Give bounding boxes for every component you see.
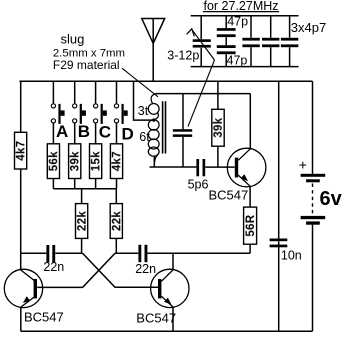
svg-text:A: A [56,122,68,141]
wire Q2 emitter [172,307,174,331]
tank capacitor plates [173,129,192,132]
svg-text:3t: 3t [138,104,149,118]
wire tank bottom [150,156,197,167]
resistor 4k7 switch D [110,144,123,179]
wire bottom ground rail [21,330,313,332]
wire cross coupling B (left node to Q2 base) [83,253,158,287]
svg-text:C: C [99,123,111,142]
battery cell bottom plates [301,216,326,219]
capacitor 22n left plates [46,245,49,262]
wire trimmer branch [200,16,202,67]
wire annotation bank top rail [191,15,299,17]
wire left column (4k7 / Q1 collector) [20,81,22,269]
transformer tap junction [152,118,155,121]
leader line bank to tank capacitor [188,60,215,127]
svg-text:+: + [299,156,307,172]
wire switch D leads [116,81,118,189]
transistor Q1 BC547 [4,269,42,307]
antenna [142,19,165,82]
wire resistor bus [53,188,116,190]
wire annotation bank bottom rail [191,66,299,68]
wire 39k leads [217,81,219,167]
wire Q1 emitter [20,307,22,331]
wire switch A leads [52,81,54,189]
svg-text:F29 material: F29 material [53,58,120,72]
switch C [94,104,107,124]
svg-text:BC547: BC547 [209,188,249,203]
svg-text:15k: 15k [90,151,102,171]
wire cross coupling A (right node to Q1 base) [37,253,115,287]
switch D [114,104,127,124]
wire battery positive drop [312,81,314,174]
wire top supply rail [19,80,312,82]
note for 27.27MHz [203,0,279,13]
wire 47p series branch [225,16,227,67]
svg-text:22k: 22k [76,211,88,231]
svg-text:22k: 22k [111,211,123,231]
svg-text:6t: 6t [139,130,150,144]
capacitor 22n right plates [138,245,141,262]
resistor 22k left [76,204,89,239]
capacitor 4p7 no1 plates [242,38,259,41]
svg-text:3x4p7: 3x4p7 [291,20,326,35]
transformer core [163,101,166,153]
capacitor 4p7 no3 plates [281,38,298,41]
capacitor 5p6 plates [196,159,199,176]
svg-text:BC547: BC547 [136,310,176,325]
svg-text:slug: slug [61,31,85,46]
wire 4p7 branch 1 [250,16,252,67]
wire tank cap branch [182,94,184,167]
capacitor 47p bottom plates [217,45,236,48]
wire battery negative drop [312,225,314,332]
svg-text:56k: 56k [48,151,60,171]
svg-text:39k: 39k [213,117,225,137]
wire collector bus y253 right [115,252,250,254]
svg-text:47p: 47p [227,15,248,29]
svg-text:4k7: 4k7 [15,141,27,161]
wire 4p7 branch 2 [270,16,272,67]
wire tank top [156,94,250,149]
transistor Q3 BC547 [227,148,266,187]
svg-text:10n: 10n [281,248,302,262]
svg-text:39k: 39k [70,151,82,171]
svg-text:5p6: 5p6 [188,178,209,192]
trimmer capacitor arrow [187,29,215,60]
resistor 4k7 left [15,132,28,169]
resistor 39k switch B [69,144,82,179]
battery dashed link [312,184,314,215]
wire 22k right leads [115,189,117,254]
switch A [51,104,64,124]
svg-text:B: B [78,122,90,141]
switch B [73,104,86,124]
svg-text:for 27.27MHz: for 27.27MHz [204,0,279,13]
wire 10n branch [278,81,280,331]
svg-text:D: D [122,124,134,143]
wire 22k left leads [81,189,83,254]
note slug / F29 material [53,31,125,72]
svg-text:BC547: BC547 [24,310,64,325]
battery cell top plates [301,174,326,177]
wire Q3 emitter to 56R [249,187,251,208]
transistor Q2 BC547 [151,269,189,307]
wire coil tap from rail [134,81,153,120]
wire collector bus y253 left [21,252,83,254]
svg-text:4k7: 4k7 [111,151,123,171]
resistor 15k [90,144,103,179]
resistor 56R [244,207,257,244]
capacitor 10n plates [270,239,288,242]
resistor 22k right [110,204,123,239]
capacitor 47p top plates [217,28,236,31]
transformer coil loops [148,94,159,167]
svg-text:22n: 22n [135,262,156,276]
wire switch B leads [74,81,76,189]
svg-text:22n: 22n [43,260,64,274]
trimmer capacitor 3-12p plates [193,39,211,42]
leader line slug note to coil [122,68,158,97]
resistor 39k bias [212,109,225,146]
resistor 56k [47,144,60,179]
capacitor 4p7 no2 plates [262,38,279,41]
wire 5p6 to Q3 base [205,166,235,168]
svg-text:47p: 47p [227,54,248,68]
wire 56R bottom lead [249,244,251,253]
wire Q2 collector [172,253,174,269]
wire switch C leads [95,81,97,189]
svg-text:6v: 6v [320,188,343,210]
svg-text:56R: 56R [245,214,257,236]
svg-text:3-12p: 3-12p [167,48,199,62]
wire 4p7 branch 3 [289,16,291,67]
